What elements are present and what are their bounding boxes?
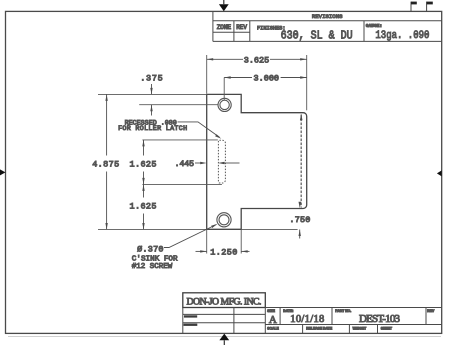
svg-text:.750: .750 <box>289 215 310 225</box>
bottom screw hole <box>219 215 229 225</box>
svg-text:10/1/18: 10/1/18 <box>290 314 324 325</box>
extension line recess bottom <box>142 183 222 185</box>
svg-text:REV: REV <box>236 24 247 31</box>
extension line 3.625/3.000 right <box>306 55 308 110</box>
recess callout leader <box>178 122 220 137</box>
title block grid <box>183 308 442 334</box>
extension line 3.000 hole center vertical <box>223 78 225 100</box>
svg-text:A: A <box>269 314 277 326</box>
svg-text:SCALE: SCALE <box>267 326 279 330</box>
title block company box <box>183 293 265 308</box>
extension line 3.625 left <box>206 55 208 94</box>
dim 4.875 <box>106 94 108 229</box>
bend centerline with end arrows <box>300 115 302 208</box>
svg-text:GAUGE:: GAUGE: <box>366 23 383 29</box>
svg-text:1.250: 1.250 <box>210 247 237 257</box>
extension line 1.250 left <box>206 229 208 253</box>
zone tick left <box>0 169 5 175</box>
designed-by label blob <box>184 315 197 317</box>
top screw hole <box>220 100 229 109</box>
svg-text:.445: .445 <box>174 159 194 169</box>
svg-text:ZONE: ZONE <box>217 24 232 31</box>
scan shadow line below border <box>8 335 441 337</box>
fold tick 2 top right <box>427 2 433 12</box>
fold tick 1 top right <box>411 2 417 12</box>
svg-text:PART NO.: PART NO. <box>335 309 351 313</box>
svg-text:#12 SCREW: #12 SCREW <box>132 263 173 271</box>
zone tick top <box>219 0 229 11</box>
extension line top edge left <box>98 93 207 95</box>
plate outline <box>207 94 307 229</box>
revisions table <box>213 11 442 41</box>
zone tick bottom <box>219 334 229 345</box>
svg-text:Ø.370: Ø.370 <box>137 245 163 255</box>
svg-text:.375: .375 <box>140 74 163 84</box>
extension line bottom edge left <box>98 228 207 230</box>
countersink callout leader <box>164 225 216 248</box>
svg-text:13ga. .090: 13ga. .090 <box>375 30 429 42</box>
dim 1.625 lower <box>143 184 145 229</box>
bottom screw hole countersink <box>217 213 231 227</box>
recess hidden outline (roller latch recess) <box>218 140 225 183</box>
svg-text:SIZE: SIZE <box>267 309 275 313</box>
top screw hole countersink <box>218 98 231 111</box>
extension line 750 bottom <box>241 228 297 230</box>
svg-text:RELEASE DATE: RELEASE DATE <box>306 326 333 330</box>
extension line 1.250 right <box>240 229 242 253</box>
svg-text:630, SL & DU: 630, SL & DU <box>281 29 353 42</box>
svg-text:3.000: 3.000 <box>254 74 280 84</box>
svg-text:SHEET: SHEET <box>381 326 393 330</box>
svg-text:FOR ROLLER LATCH: FOR ROLLER LATCH <box>118 125 187 133</box>
svg-text:3.625: 3.625 <box>244 55 270 65</box>
svg-text:1.625: 1.625 <box>130 160 157 170</box>
svg-text:DATE:: DATE: <box>283 309 293 313</box>
dim 3.000 <box>224 77 307 79</box>
dim 3.625 <box>207 58 307 60</box>
zone tick right <box>437 170 442 176</box>
dim 1.625 upper <box>143 140 145 185</box>
extension line recess top <box>142 139 217 141</box>
dim 1.250 <box>196 250 207 252</box>
svg-text:REV: REV <box>427 309 435 313</box>
svg-text:DON-JO MFG. INC.: DON-JO MFG. INC. <box>187 297 262 308</box>
svg-text:4.875: 4.875 <box>92 160 119 170</box>
extension line hole center <box>139 104 218 106</box>
svg-text:REVISIONS: REVISIONS <box>312 13 343 20</box>
approved label blob <box>184 324 198 326</box>
svg-text:1.625: 1.625 <box>130 201 157 211</box>
svg-text:DEST-103: DEST-103 <box>359 313 401 325</box>
svg-text:WEIGHT: WEIGHT <box>353 326 367 330</box>
